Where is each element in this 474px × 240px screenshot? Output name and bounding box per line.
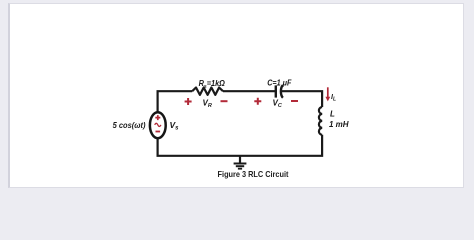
plus sign (VR)	[185, 98, 192, 105]
svg-text:Rs=1kΩ: Rs=1kΩ	[199, 79, 225, 90]
svg-text:IL: IL	[331, 94, 336, 102]
wire: capacitor to top-right corner, down to inductor	[282, 91, 323, 107]
minus sign (VC)	[291, 100, 298, 102]
svg-text:Figure 3 RLC Circuit: Figure 3 RLC Circuit	[218, 170, 289, 180]
plus sign (VC)	[254, 98, 261, 105]
ground	[239, 156, 241, 163]
svg-text:L: L	[330, 110, 335, 119]
capacitor C left plate	[275, 85, 277, 97]
source minus sign	[156, 131, 161, 133]
svg-text:5 cos(ωt): 5 cos(ωt)	[113, 121, 146, 131]
source sine symbol	[155, 123, 161, 126]
wire: resistor to capacitor	[223, 90, 275, 92]
voltage source Vs (ellipse)	[150, 112, 166, 138]
current arrow IL (red)	[327, 87, 329, 97]
svg-text:1 mH: 1 mH	[329, 120, 349, 129]
inductor L (coil, 4 bumps)	[319, 107, 322, 135]
wire: inductor to bottom rail to left rail	[158, 135, 323, 156]
svg-text:VR: VR	[203, 98, 212, 109]
svg-text:Vs: Vs	[170, 120, 180, 132]
svg-text:VC: VC	[273, 98, 283, 109]
source plus sign	[155, 115, 160, 120]
minus sign (VR)	[221, 100, 228, 102]
capacitor C right plate (curved)	[281, 85, 283, 98]
resistor Rs (zigzag)	[192, 88, 223, 95]
svg-text:C=1 μF: C=1 μF	[267, 78, 291, 87]
wire top-left: left rail upper + top rail to resistor	[158, 91, 193, 112]
